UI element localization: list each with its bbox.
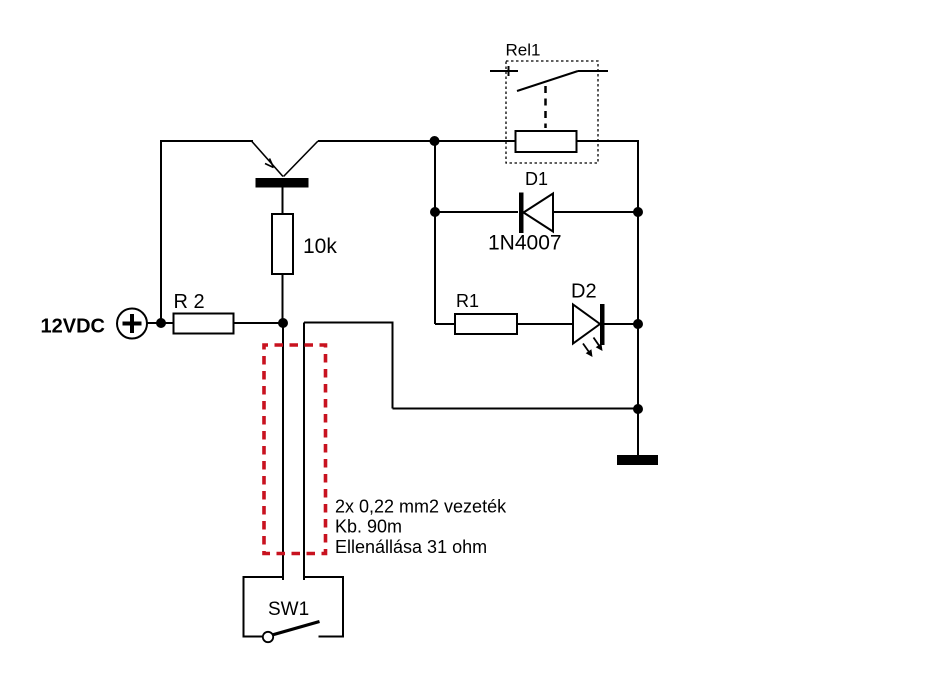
svg-text:R1: R1 (456, 291, 479, 311)
resistor R2 (174, 314, 234, 334)
node: source junction (riser tap) (156, 318, 166, 328)
svg-text:2x 0,22 mm2 vezeték: 2x 0,22 mm2 vezeték (335, 497, 507, 517)
relay actuator dashed link (544, 86, 547, 128)
switch SW1 enclosure (243, 577, 345, 638)
wire: D2 cathode to right rail (604, 323, 638, 325)
wire: source to R2 (147, 322, 174, 324)
wire: D1 row left segment (435, 211, 518, 213)
12VDC source terminal (circle with plus) (117, 309, 147, 339)
wire: cable right conductor from SW1 up and over to ground rail (304, 322, 638, 581)
relay contact: moving blade (517, 71, 578, 91)
wire: R2 to base node (233, 322, 283, 324)
relay contact: right terminal (578, 70, 608, 72)
cable annotation dashed red box (264, 345, 326, 554)
switch SW1 contact (pivot circle and blade) (263, 622, 320, 643)
resistor R1 (455, 314, 517, 334)
wire: top rail from transistor to relay coil (318, 140, 516, 142)
svg-text:1N4007: 1N4007 (488, 232, 562, 255)
LED D2 (573, 304, 605, 357)
svg-text:12VDC: 12VDC (41, 316, 105, 338)
wire: right rail down to ground (637, 140, 639, 456)
node: ground row junction on right rail (633, 404, 643, 414)
svg-text:D2: D2 (571, 281, 597, 303)
diode D1 (1N4007) (519, 193, 553, 234)
svg-text:R 2: R 2 (174, 291, 205, 313)
cable note text (335, 497, 507, 558)
node: LED row junction on right rail (633, 319, 643, 329)
relay Rel1 dashed enclosure (506, 61, 598, 163)
resistor 10k (272, 214, 293, 274)
svg-text:SW1: SW1 (268, 599, 309, 620)
relay contact: left fixed terminal (490, 66, 518, 76)
wire: D1 row right segment (553, 211, 638, 213)
svg-text:D1: D1 (525, 169, 548, 189)
transistor Q1 emitter diagonal with arrow (252, 141, 284, 177)
wire: R1 to D2 (517, 323, 573, 325)
wire: left riser from 12VDC node up to top rail (160, 141, 253, 323)
svg-text:Rel1: Rel1 (506, 41, 541, 60)
ground symbol (617, 455, 658, 465)
transistor Q1 base bar (256, 178, 309, 188)
wire: D1 branch vertical (top rail down to R1 row) (435, 141, 456, 324)
relay coil (516, 131, 577, 152)
wire: cable left conductor down to SW1 (282, 323, 284, 580)
node: D1 cathode-side junction on right rail (633, 207, 643, 217)
wire: base bar down to 10k (282, 186, 284, 215)
node: D1 anode-side junction (430, 207, 440, 217)
node: junction top rail / D1 branch (430, 136, 440, 146)
node: base node junction (278, 318, 288, 328)
wire: top rail from coil to right rail corner (577, 140, 639, 142)
svg-text:10k: 10k (303, 235, 337, 258)
wire: 10k down to base node (282, 274, 284, 323)
svg-text:Ellenállása 31 ohm: Ellenállása 31 ohm (335, 537, 487, 557)
transistor Q1 collector diagonal (284, 141, 319, 177)
svg-text:Kb. 90m: Kb. 90m (335, 517, 402, 537)
